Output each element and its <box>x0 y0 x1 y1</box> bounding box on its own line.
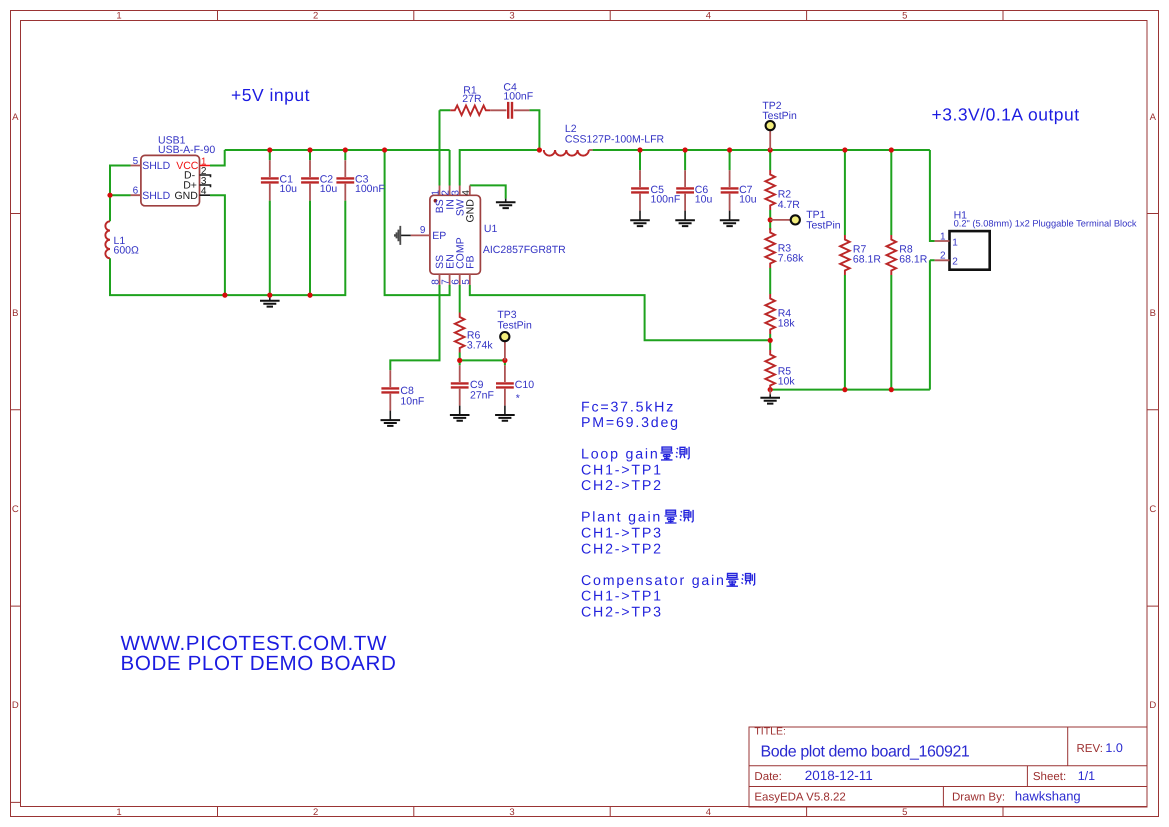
svg-text:5: 5 <box>902 11 907 22</box>
svg-text:TestPin: TestPin <box>762 110 797 122</box>
svg-text:4: 4 <box>706 807 711 818</box>
svg-text:1: 1 <box>940 231 946 242</box>
svg-text:10u: 10u <box>320 183 338 195</box>
svg-text:1: 1 <box>952 237 958 248</box>
svg-text:10u: 10u <box>695 194 713 206</box>
svg-text:4: 4 <box>706 11 711 22</box>
svg-text:+3.3V/0.1A output: +3.3V/0.1A output <box>932 104 1080 124</box>
svg-text:CH2->TP3: CH2->TP3 <box>581 604 663 620</box>
svg-text:9: 9 <box>420 225 426 236</box>
svg-text:B: B <box>1150 308 1156 319</box>
svg-text:600Ω: 600Ω <box>114 244 140 256</box>
svg-text:5: 5 <box>461 279 472 285</box>
svg-text:EP: EP <box>432 230 446 242</box>
svg-text:Sheet:: Sheet: <box>1033 771 1066 783</box>
svg-text:GND: GND <box>465 199 477 223</box>
svg-text:SHLD: SHLD <box>142 160 170 172</box>
svg-text:2: 2 <box>952 257 958 268</box>
svg-text:68.1R: 68.1R <box>853 254 881 266</box>
svg-text:D: D <box>1149 700 1156 711</box>
svg-text:Date:: Date: <box>754 771 782 783</box>
svg-text:27nF: 27nF <box>470 389 494 401</box>
svg-text:CH1->TP1: CH1->TP1 <box>581 589 663 605</box>
svg-text:CSS127P-100M-LFR: CSS127P-100M-LFR <box>565 134 665 146</box>
svg-text:4.7R: 4.7R <box>778 199 801 211</box>
svg-text:100nF: 100nF <box>503 91 533 103</box>
svg-text:2: 2 <box>313 11 318 22</box>
svg-text:5: 5 <box>133 156 139 167</box>
svg-text:A: A <box>12 112 19 123</box>
svg-text:1.0: 1.0 <box>1105 741 1122 755</box>
svg-text:D: D <box>12 700 19 711</box>
svg-text:SHLD: SHLD <box>142 190 170 202</box>
svg-text:100nF: 100nF <box>651 194 681 206</box>
svg-text:10u: 10u <box>739 194 757 206</box>
svg-text:Drawn By:: Drawn By: <box>952 791 1005 803</box>
svg-text:CH1->TP3: CH1->TP3 <box>581 526 663 542</box>
svg-text:B: B <box>12 308 18 319</box>
svg-text:6: 6 <box>133 186 139 197</box>
svg-text:18k: 18k <box>778 318 796 330</box>
svg-text:USB-A-F-90: USB-A-F-90 <box>158 144 215 156</box>
svg-text:Compensator gain: Compensator gain <box>581 573 726 589</box>
svg-text:TestPin: TestPin <box>497 319 532 331</box>
svg-text:REV:: REV: <box>1077 743 1103 755</box>
svg-text:68.1R: 68.1R <box>899 254 927 266</box>
svg-text:+5V input: +5V input <box>231 85 310 105</box>
svg-text:CH2->TP2: CH2->TP2 <box>581 478 663 494</box>
svg-text:PM=69.3deg: PM=69.3deg <box>581 415 680 431</box>
svg-text:0.2" (5.08mm) 1x2 Pluggable Te: 0.2" (5.08mm) 1x2 Pluggable Terminal Blo… <box>954 219 1137 229</box>
svg-text:100nF: 100nF <box>355 183 385 195</box>
svg-text:Loop gain: Loop gain <box>581 447 660 463</box>
svg-text:3: 3 <box>509 11 514 22</box>
svg-text:Plant gain: Plant gain <box>581 510 662 526</box>
svg-text:GND: GND <box>175 190 199 202</box>
svg-text:hawkshang: hawkshang <box>1015 788 1081 803</box>
svg-text:A: A <box>1150 112 1157 123</box>
svg-text:FB: FB <box>465 255 477 268</box>
svg-text:5: 5 <box>902 807 907 818</box>
svg-text:7.68k: 7.68k <box>778 253 804 265</box>
svg-text:4: 4 <box>461 190 472 196</box>
svg-text:2: 2 <box>313 807 318 818</box>
svg-text:Bode plot demo board_160921: Bode plot demo board_160921 <box>761 743 970 760</box>
svg-text:CH2->TP2: CH2->TP2 <box>581 541 663 557</box>
svg-text:BODE PLOT DEMO BOARD: BODE PLOT DEMO BOARD <box>121 652 397 675</box>
svg-text:3: 3 <box>509 807 514 818</box>
svg-text:2: 2 <box>940 251 946 262</box>
svg-text:10u: 10u <box>280 183 298 195</box>
svg-text:2018-12-11: 2018-12-11 <box>805 768 873 783</box>
svg-text:4: 4 <box>201 186 207 197</box>
svg-text:CH1->TP1: CH1->TP1 <box>581 462 663 478</box>
svg-text:TestPin: TestPin <box>806 219 841 231</box>
svg-text:10nF: 10nF <box>400 395 424 407</box>
svg-text:EasyEDA V5.8.22: EasyEDA V5.8.22 <box>754 791 845 803</box>
svg-text:TITLE:: TITLE: <box>754 726 786 738</box>
svg-text:C: C <box>12 504 19 515</box>
svg-text:10k: 10k <box>778 376 796 388</box>
svg-text:27R: 27R <box>462 93 482 105</box>
svg-text:AIC2857FGR8TR: AIC2857FGR8TR <box>483 244 566 256</box>
svg-text:U1: U1 <box>484 223 498 235</box>
svg-text:1/1: 1/1 <box>1078 769 1095 783</box>
svg-text:3.74k: 3.74k <box>467 340 493 352</box>
svg-text:1: 1 <box>116 807 121 818</box>
svg-text:C: C <box>1149 504 1156 515</box>
svg-text:1: 1 <box>116 11 121 22</box>
svg-text:*: * <box>516 393 520 405</box>
svg-text:Fc=37.5kHz: Fc=37.5kHz <box>581 399 675 415</box>
svg-text:C10: C10 <box>515 379 534 391</box>
